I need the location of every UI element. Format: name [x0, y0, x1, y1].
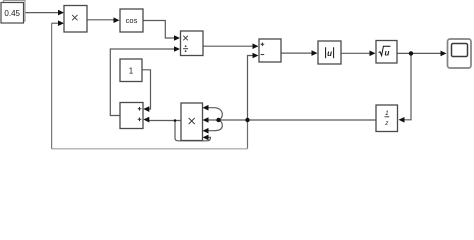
- svg-text:cos: cos: [126, 16, 138, 25]
- svg-text:u: u: [385, 48, 390, 57]
- svg-text:u: u: [327, 49, 332, 58]
- svg-text:1: 1: [129, 67, 134, 76]
- svg-text:0.45: 0.45: [4, 9, 20, 18]
- svg-text:1: 1: [385, 110, 388, 117]
